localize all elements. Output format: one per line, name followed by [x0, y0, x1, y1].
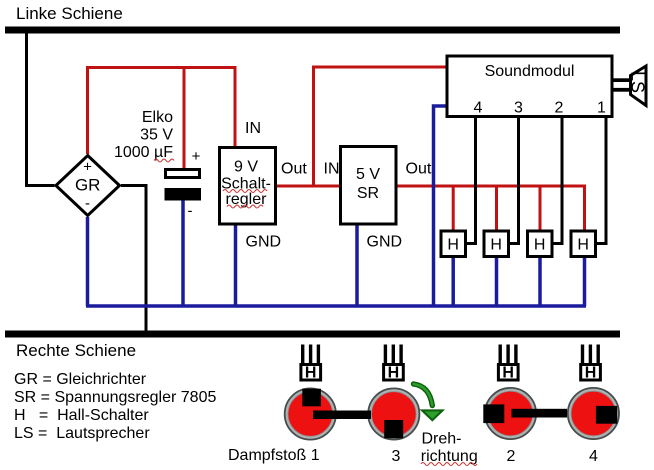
svg-text:1: 1	[597, 100, 606, 117]
voltage regulator U1 9V Schaltregler	[220, 148, 276, 225]
wheel 2 (Dampfstoss 3)	[368, 388, 419, 439]
svg-text:GR: GR	[75, 176, 101, 195]
svg-text:1000 µF: 1000 µF	[114, 144, 173, 161]
hall switch H3	[528, 231, 553, 257]
wire blue ground bus	[86, 304, 586, 308]
capacitor C1 Elko plus plate	[166, 170, 200, 178]
svg-text:4: 4	[474, 100, 483, 117]
svg-text:H: H	[577, 237, 589, 254]
capacitor C1 Elko minus plate	[165, 188, 202, 201]
svg-text:IN: IN	[324, 161, 340, 178]
wire red 9V Out to 5V IN	[277, 185, 339, 188]
wire black Soundmodul pin 4 to H1	[467, 118, 476, 244]
svg-text:Rechte Schiene: Rechte Schiene	[16, 341, 136, 360]
svg-text:5 V: 5 V	[356, 166, 380, 183]
svg-text:Elko: Elko	[142, 109, 173, 126]
svg-text:+: +	[192, 148, 201, 165]
svg-text:Dampfstoß 1: Dampfstoß 1	[228, 447, 320, 464]
wire blue H1 ground drop	[451, 258, 455, 306]
left rail (Linke Schiene)	[5, 27, 620, 34]
hall switch H1	[441, 231, 466, 257]
wire blue Soundmodul ground	[434, 106, 446, 306]
svg-text:-: -	[188, 203, 193, 220]
hall sensor above wheel 2	[384, 345, 404, 382]
wire blue Elko minus drop	[181, 201, 185, 307]
wire blue 5V GND drop	[355, 226, 359, 307]
svg-text:Out: Out	[406, 161, 432, 178]
svg-text:H: H	[447, 237, 459, 254]
wire red stub to H1	[452, 186, 455, 230]
svg-text:35 V: 35 V	[140, 127, 173, 144]
svg-text:richtung: richtung	[421, 448, 478, 465]
crank pin wheel 3	[483, 404, 504, 423]
svg-text:2: 2	[507, 448, 516, 465]
coupling rod wheels 1-2	[313, 411, 371, 420]
svg-text:GND: GND	[367, 234, 403, 251]
rectifier GR	[56, 156, 120, 216]
svg-text:-: -	[85, 195, 90, 212]
svg-text:Linke Schiene: Linke Schiene	[16, 4, 123, 23]
svg-text:H: H	[490, 237, 502, 254]
hall sensor above wheel 1	[301, 345, 321, 382]
svg-text:2: 2	[555, 100, 564, 117]
svg-text:LS = Lautsprecher: LS = Lautsprecher	[14, 425, 150, 442]
svg-text:SR: SR	[357, 185, 379, 202]
svg-text:3: 3	[514, 100, 523, 117]
svg-text:LS: LS	[628, 71, 648, 93]
hall switch H2	[484, 231, 509, 257]
svg-text:GR = Gleichrichter: GR = Gleichrichter	[14, 371, 147, 388]
svg-text:H: H	[502, 365, 514, 382]
wire red stub to H2	[495, 186, 498, 230]
wire blue H3 ground drop	[538, 258, 542, 306]
svg-text:H: H	[388, 365, 400, 382]
svg-text:H = Hall-Schalter: H = Hall-Schalter	[14, 407, 149, 424]
svg-text:4: 4	[589, 448, 598, 465]
legend	[14, 371, 216, 442]
svg-text:Out: Out	[281, 161, 307, 178]
coupling rod wheels 3-4	[512, 409, 568, 418]
label Elko value	[114, 109, 174, 162]
wire blue GR minus drop	[86, 217, 90, 306]
wire black Soundmodul pin 2 to H3	[554, 118, 563, 244]
hall sensor above wheel 4	[581, 345, 601, 382]
wire blue H2 ground drop	[495, 258, 499, 306]
wire black left rail to GR AC input	[27, 32, 55, 186]
crank pin wheel 2	[384, 420, 403, 438]
svg-text:H: H	[305, 365, 317, 382]
speaker LS	[614, 66, 648, 106]
svg-text:+: +	[83, 159, 92, 176]
wire red 5V Out rail to Hall switches	[398, 186, 585, 230]
svg-text:9 V: 9 V	[234, 159, 258, 176]
label Drehrichtung	[421, 431, 478, 466]
wire red branch to Elko +	[183, 68, 186, 170]
wheel 1	[285, 388, 336, 439]
svg-text:3: 3	[392, 448, 401, 465]
wire black Soundmodul pin 1 to H4	[597, 118, 606, 244]
hall switch H4	[571, 231, 596, 257]
right rail (Rechte Schiene)	[5, 331, 620, 338]
wire red stub to H3	[539, 186, 542, 230]
wire black Soundmodul pin 3 to H2	[510, 118, 519, 244]
svg-text:GND: GND	[246, 234, 282, 251]
svg-text:SR = Spannungsregler 7805: SR = Spannungsregler 7805	[14, 389, 216, 406]
wheel 4 (Dampfstoss 4)	[568, 388, 619, 439]
crank pin wheel 1	[302, 389, 321, 407]
svg-text:H: H	[585, 365, 597, 382]
svg-text:Soundmodul: Soundmodul	[485, 63, 575, 80]
wheel 3 (Dampfstoss 2)	[485, 388, 536, 439]
svg-text:Dreh-: Dreh-	[422, 431, 462, 448]
hall sensor above wheel 3	[498, 345, 518, 382]
wire red net V+ : GR top to top bus and down to 9V IN	[88, 68, 236, 155]
wire black GR AC input to right rail	[121, 186, 146, 332]
svg-text:H: H	[534, 237, 546, 254]
crank pin wheel 4	[596, 406, 617, 424]
sound module U3	[447, 56, 612, 117]
wire blue H4 ground drop	[583, 258, 587, 306]
voltage regulator U2 5V SR	[341, 147, 397, 225]
wire blue 9V GND drop	[234, 226, 238, 307]
svg-text:IN: IN	[245, 120, 261, 137]
wire red branch up to Soundmodul supply	[314, 67, 446, 186]
rotation direction arrow	[414, 384, 443, 420]
